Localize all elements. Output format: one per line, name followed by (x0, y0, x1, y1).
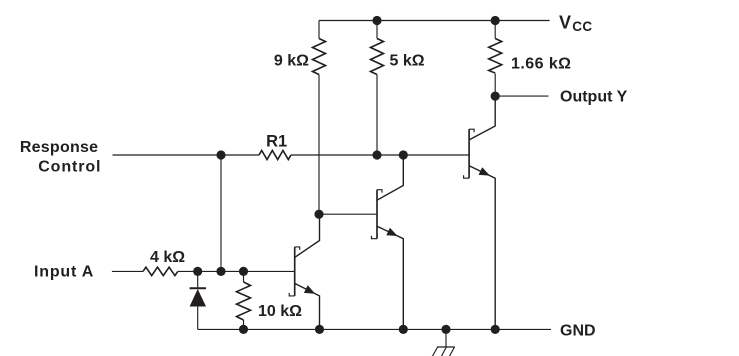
svg-text:Response: Response (20, 139, 98, 156)
node ground stub (441, 325, 450, 334)
resistor 4k (143, 267, 178, 275)
node Q3 emitter (491, 325, 500, 334)
node top rail / 5k (372, 16, 381, 25)
wire GND rail (198, 328, 551, 330)
wire Response Control to R1 (113, 154, 260, 156)
svg-text:Control: Control (38, 159, 101, 176)
svg-text:CC: CC (572, 19, 592, 34)
resistor 10k (237, 271, 251, 329)
svg-text:Output Y: Output Y (560, 89, 628, 106)
wire node 221 vertical (220, 155, 222, 271)
wire 4k to Q1 base (178, 270, 295, 272)
wire Q2 base (319, 213, 377, 215)
node input vertical (216, 267, 225, 276)
node 5k bottom (372, 150, 381, 159)
ground chassis symbol (432, 329, 455, 356)
node Q2 base (314, 210, 323, 219)
label VCC (559, 12, 592, 34)
wire VCC top rail (319, 20, 550, 22)
svg-text:10 kΩ: 10 kΩ (258, 303, 302, 320)
node diode top (193, 267, 202, 276)
label Input A (34, 263, 94, 280)
resistor 9k (313, 21, 326, 215)
node Q2 collector (399, 150, 408, 159)
resistor 1.66k (489, 21, 502, 97)
label Output Y (560, 89, 628, 106)
node top rail / 1.66k (491, 16, 500, 25)
node R1 wire / vertical (216, 150, 225, 159)
resistor R1 (259, 151, 291, 160)
transistor Q2 (372, 155, 404, 329)
svg-text:9 kΩ: 9 kΩ (274, 53, 309, 70)
svg-text:R1: R1 (266, 133, 287, 151)
svg-text:1.66 kΩ: 1.66 kΩ (511, 55, 571, 72)
label 10 kΩ (258, 303, 302, 320)
node 10k top (239, 267, 248, 276)
wire R1 to Q3 base (291, 154, 469, 156)
transistor Q1 (289, 214, 319, 329)
label GND (560, 322, 596, 339)
label 5 kΩ (390, 53, 425, 70)
label Response Control (20, 139, 102, 175)
svg-text:5 kΩ: 5 kΩ (390, 53, 425, 70)
label 4 kΩ (150, 249, 185, 266)
node 10k bottom (239, 325, 248, 334)
resistor 5k (371, 21, 384, 156)
node Q1 emitter (315, 325, 324, 334)
wire Output Y (495, 95, 548, 97)
label R1 (266, 133, 287, 151)
diode input clamp (190, 271, 206, 329)
label 1.66 kΩ (511, 55, 571, 72)
svg-text:Input A: Input A (34, 263, 94, 280)
label 9 kΩ (274, 53, 309, 70)
svg-text:4 kΩ: 4 kΩ (150, 249, 185, 266)
node Q2 emitter (399, 325, 408, 334)
svg-text:V: V (559, 12, 571, 32)
node Output Y (491, 92, 500, 101)
svg-text:GND: GND (560, 322, 596, 339)
transistor Q3 (464, 96, 496, 329)
wire Input A to 4k (112, 270, 143, 272)
